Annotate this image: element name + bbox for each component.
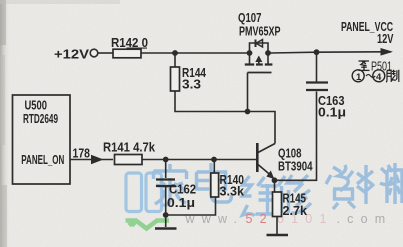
watermark char 电 [197, 163, 232, 202]
svg-text:1: 1 [356, 72, 362, 83]
C162 top lead [165, 160, 167, 179]
base bar [256, 143, 259, 172]
svg-text:R141 4.7k: R141 4.7k [103, 140, 156, 155]
capacitor C163 [306, 83, 328, 91]
svg-text:4: 4 [376, 72, 382, 83]
svg-text:0.1μ: 0.1μ [318, 105, 346, 120]
resistor R140 [211, 173, 219, 197]
svg-text:+12V: +12V [54, 47, 89, 62]
svg-text:PMV65XP: PMV65XP [239, 24, 281, 39]
svg-text:.com: .com [337, 212, 393, 226]
watermark char 修 [278, 175, 311, 213]
gate bar [248, 72, 272, 74]
MOSFET body diode loop [250, 43, 269, 53]
capacitor C162 [156, 180, 175, 187]
channel stubs [250, 55, 269, 64]
body diode triangle [256, 40, 263, 48]
U500 box [13, 95, 71, 184]
ground (R145) [267, 234, 289, 237]
resistor R145 [273, 192, 282, 217]
watermark char 网 (clipped at right edge) [387, 170, 403, 203]
wire: +12V terminal to R142 [98, 52, 113, 54]
R140 top lead [213, 160, 215, 174]
svg-text:RTD2649: RTD2649 [23, 111, 58, 126]
transistor Q108 [257, 143, 274, 179]
svg-text:178: 178 [73, 146, 91, 161]
PANEL_VCC arrow [381, 48, 394, 56]
ground (C162/R140) [155, 227, 177, 230]
C162 bottom lead to gnd junction [165, 187, 167, 227]
junction dot emitter [272, 177, 278, 183]
junction dot base/R140 [211, 157, 217, 163]
U500 to base wire [70, 159, 113, 161]
label ①～④脚 [352, 70, 399, 83]
wire: R142 to MOSFET left, through to right, to arrow [141, 52, 247, 54]
junction dot at R144/top [172, 50, 178, 56]
body diode cathode bar [255, 40, 257, 48]
watermark char 家 [154, 164, 187, 205]
svg-text:PANEL_ON: PANEL_ON [21, 152, 64, 167]
Q108 emitter [258, 165, 271, 176]
junction dot right [265, 50, 271, 56]
hand-drawn 脚 [386, 70, 399, 82]
svg-text:3.3: 3.3 [182, 77, 201, 92]
svg-text:www.: www. [185, 212, 245, 226]
resistor R141 [115, 155, 143, 165]
resistor R144 [171, 67, 180, 91]
svg-text:12V: 12V [377, 31, 394, 46]
Q108 collector [258, 144, 275, 153]
junction dot base/C162 [163, 157, 169, 163]
watermark green wave [126, 221, 170, 229]
C163 top lead [316, 52, 318, 81]
svg-text:3.3k: 3.3k [220, 184, 245, 199]
junction dot C162/R140 gnd bus [163, 212, 169, 218]
watermark char 资 [326, 165, 355, 209]
arrow stub (source, pointing up) [258, 57, 260, 64]
junction bus C162-R140 [166, 197, 216, 215]
svg-text:52: 52 [246, 212, 274, 226]
channel bars [245, 63, 273, 65]
junction dot gate bus [245, 109, 251, 115]
watermark url row [185, 212, 393, 226]
emitter arrowhead [266, 171, 274, 180]
svg-text:0.1μ: 0.1μ [167, 195, 195, 210]
watermark logo (open book icon) [126, 173, 162, 212]
MOSFET gate lead [247, 73, 249, 112]
watermark char 料 [357, 163, 395, 204]
watermark char 维 [243, 176, 281, 216]
svg-text:2.7k: 2.7k [283, 203, 308, 218]
svg-text:BT3904: BT3904 [278, 159, 313, 174]
label 至P501 (hand-drawn 至 + text P501) [359, 59, 393, 74]
signal arrow after pin 178 [91, 155, 104, 164]
R145 bottom lead [276, 217, 278, 236]
MOSFET Q107 symbol [245, 40, 273, 73]
R144 bottom lead and gate bus [175, 91, 275, 144]
emitter junction down to R145 [274, 180, 276, 192]
wire: R144 junction down [174, 53, 176, 67]
junction dot PANEL_VCC / C163 [314, 49, 320, 55]
junction dot left [247, 50, 253, 56]
C163 bottom lead down to emitter bus [276, 92, 317, 181]
+12V terminal circle [90, 49, 98, 57]
resistor R142 [113, 49, 141, 58]
